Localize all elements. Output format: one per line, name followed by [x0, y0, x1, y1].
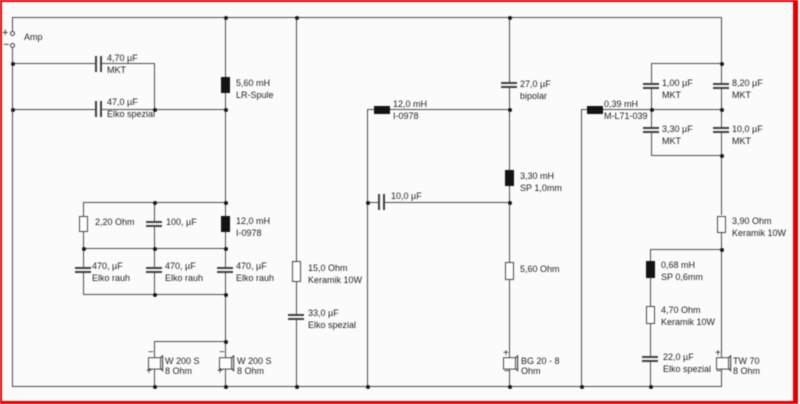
wire V6 seg2: [651, 89, 652, 127]
capacitor 10,0uF: [378, 194, 380, 210]
wire RLC mid rail: [83, 248, 226, 249]
capacitor 4,70uF MKT: [95, 56, 97, 72]
label BG 20 - 8 Ohm: [521, 356, 560, 376]
wire RLC bottom rail: [83, 294, 226, 295]
wire left drop to + terminal: [12, 17, 13, 32]
junction bottom rail at V4: [508, 385, 512, 389]
label spk1 plus: [146, 366, 152, 378]
capacitor 33,0uF Elko spezial: [288, 314, 304, 316]
speaker TW 70: [716, 355, 736, 373]
capacitor 8,20uF MKT: [713, 83, 729, 85]
label TW70 plus: [715, 348, 721, 360]
junction 10uF wire at V4: [508, 201, 512, 205]
wire top rail: [12, 17, 722, 18]
junction RLC bottom at V2: [224, 293, 228, 297]
wire tweeter branch horizontal: [650, 249, 722, 250]
label 3,30 mH SP 1,0mm: [520, 170, 562, 194]
wire H2 left of C1: [12, 63, 95, 64]
label 12,0 mH I-0978 horizontal: [393, 98, 427, 122]
resistor 4,70 Ohm Keramik 10W: [646, 306, 655, 324]
capacitor 22,0uF Elko spezial: [642, 356, 658, 358]
label 5,60 Ohm: [520, 263, 560, 275]
junction H3 at left rail: [11, 108, 15, 112]
wire speaker link rail: [154, 341, 226, 342]
resistor 2,20 Ohm: [79, 216, 88, 232]
junction speaker link at V2: [224, 340, 228, 344]
inductor 0,68mH SP 0,6mm: [646, 261, 655, 278]
label 470 uF Elko rauh 1: [92, 260, 130, 284]
capacitor 470uF Elko rauh 1: [75, 267, 91, 269]
wire MKT top rail: [651, 63, 722, 64]
wire V3 top: [296, 17, 297, 261]
wire 0,39mH horizontal: [581, 109, 722, 110]
junction bottom rail at V5: [580, 385, 584, 389]
label 3,30 uF MKT: [662, 123, 693, 147]
resistor 15,0 Ohm Keramik 10W: [292, 261, 301, 282]
label 1,00 uF MKT: [662, 77, 693, 101]
speaker W 200 S no.2: [219, 355, 239, 373]
junction RLC top at V2: [224, 201, 228, 205]
label BG20 minus: [504, 366, 510, 378]
label 5,60 mH LR-Spule: [236, 77, 274, 101]
label 15,0 Ohm Keramik 10W: [308, 262, 362, 286]
wire x154 bottom stub: [154, 273, 155, 295]
wire spk1 bottom stub: [154, 369, 155, 387]
speaker W 200 S no.1: [148, 355, 168, 373]
inductor 12,0mH I-0978 vertical: [221, 216, 230, 232]
wire H3 left of C2: [12, 109, 95, 110]
junction bottom rail at V6b: [649, 385, 653, 389]
wire V7 seg1: [721, 17, 722, 83]
wire V7 seg3: [721, 133, 722, 215]
label 0,39 mH M-L71-039: [604, 98, 648, 122]
label TW 70 8 Ohm: [733, 356, 760, 376]
label 4,70 Ohm Keramik 10W: [661, 304, 715, 328]
wire 12mH branch horizontal: [367, 109, 509, 110]
label 0,68 mH SP 0,6mm: [661, 259, 703, 283]
wire V2 below inductor: [225, 232, 226, 267]
wire V4 seg2: [509, 88, 510, 170]
wire spk1 top stub: [154, 341, 155, 358]
junction bottom rail at x154: [153, 385, 157, 389]
inductor 12,0mH I-0978 horizontal: [374, 106, 390, 114]
node Amp - terminal: [10, 43, 15, 48]
label Amp +: [2, 27, 8, 39]
label 33,0 uF Elko spezial: [308, 307, 356, 331]
junction bottom rail at V2: [224, 385, 228, 389]
junction 10uF wire at x367: [366, 201, 370, 205]
wire RLC top rail: [83, 202, 226, 203]
label 470 uF Elko rauh 2: [165, 260, 203, 284]
label 8,20 uF MKT: [732, 77, 763, 101]
label 22,0 uF Elko spezial: [663, 351, 711, 375]
capacitor 47,0uF Elko spezial: [95, 101, 97, 117]
junction tweeter branch at V7: [720, 248, 724, 252]
speaker BG 20: [503, 355, 523, 373]
junction RLC mid at x83: [82, 247, 86, 251]
junction 0,39mH wire at V7: [720, 108, 724, 112]
inductor 0,39mH M-L71-039: [587, 106, 603, 114]
label 100, uF: [166, 216, 197, 228]
wire V6b seg2: [650, 278, 651, 306]
label 4,70 uF MKT: [107, 52, 138, 76]
junction bottom rail at x367: [366, 385, 370, 389]
wire 10uF wire left: [367, 202, 378, 203]
label spk1 minus: [148, 347, 154, 359]
wire V3 mid: [296, 282, 297, 314]
label 27,0 uF bipolar: [520, 78, 551, 102]
wire H2 right of C1: [102, 63, 154, 64]
junction RLC mid at x154: [153, 247, 157, 251]
wire V6 seg1: [651, 63, 652, 83]
wire 10uF wire right: [385, 202, 509, 203]
wire V7 seg2: [721, 89, 722, 127]
wire V3 bottom: [296, 320, 297, 387]
junction bottom rail at V3: [295, 385, 299, 389]
junction H3 at x154: [153, 108, 157, 112]
label 47,0 uF Elko spezial: [107, 96, 155, 120]
junction top rail at V2: [224, 16, 228, 20]
label 12,0 mH I-0978 vertical: [236, 215, 270, 239]
wire V7 seg4: [721, 233, 722, 358]
wire x83 mid stub: [83, 232, 84, 267]
inductor 3,30mH SP 1,0mm: [505, 170, 514, 186]
wire V2 top: [225, 17, 226, 77]
inductor 5,60mH LR-Spule: [221, 77, 230, 93]
wire x367 rail: [367, 109, 368, 387]
wire x83 top stub: [83, 202, 84, 216]
label W 200 S 8 Ohm no.2: [237, 356, 272, 376]
capacitor 100uF: [146, 221, 162, 223]
junction RLC mid at V2: [224, 247, 228, 251]
label 3,90 Ohm Keramik 10W: [732, 215, 786, 239]
label TW70 minus: [716, 366, 722, 378]
junction RLC top at x154: [153, 201, 157, 205]
junction MKT bottom at V7: [720, 154, 724, 158]
junction MKT top at V7: [720, 62, 724, 66]
label 2,20 Ohm: [95, 216, 135, 228]
label 470 uF Elko rauh 3: [236, 260, 274, 284]
label Amp: [24, 31, 43, 43]
wire V2 mid: [225, 93, 226, 216]
junction top rail at V3: [295, 16, 299, 20]
capacitor 3,30uF MKT: [643, 127, 659, 129]
junction top rail at V4: [508, 16, 512, 20]
wire V6 seg3: [651, 133, 652, 156]
junction RLC bottom at x154: [153, 293, 157, 297]
wire TW70 bottom stub: [721, 369, 722, 387]
wire left rail from - terminal: [12, 48, 13, 387]
wire V6b seg1: [650, 249, 651, 261]
wire x154 top stub: [154, 202, 155, 221]
label W 200 S 8 Ohm no.1: [165, 356, 200, 376]
wire V4 seg4: [509, 280, 510, 358]
resistor 3,90 Ohm Keramik 10W: [717, 216, 726, 233]
label spk2 minus: [219, 347, 225, 359]
label 10,0 uF MKT: [732, 123, 763, 147]
wire V2 below cap3: [225, 273, 226, 358]
label BG20 plus: [503, 348, 509, 360]
capacitor 470uF Elko rauh 3: [217, 267, 233, 269]
junction H2 at left rail: [11, 62, 15, 66]
label spk2 plus: [217, 366, 223, 378]
wire V4 seg3: [509, 186, 510, 262]
wire bottom rail: [12, 386, 722, 387]
capacitor 1,00uF MKT: [643, 83, 659, 85]
capacitor 27,0uF bipolar: [501, 82, 517, 84]
wire BG20 bottom stub: [509, 369, 510, 387]
wire V2 below speaker2: [225, 369, 226, 387]
junction 0,39mH wire at V6: [650, 108, 654, 112]
capacitor 470uF Elko rauh 2: [146, 267, 162, 269]
resistor 5,60 Ohm: [505, 262, 514, 280]
wire V6b seg4: [650, 362, 651, 387]
junction H3 at V2: [224, 108, 228, 112]
label Amp -: [3, 39, 9, 51]
wire H3 right of C2: [102, 109, 226, 110]
junction 12mH wire at V4: [508, 108, 512, 112]
wire x83 bottom stub: [83, 273, 84, 295]
wire V5 rail: [581, 109, 582, 387]
capacitor 10,0uF MKT: [713, 127, 729, 129]
wire MKT bottom rail: [651, 155, 722, 156]
wire C1 branch drop: [154, 63, 155, 110]
wire x154 mid stub: [154, 227, 155, 267]
wire V6b seg3: [650, 324, 651, 356]
label 10,0 uF: [391, 190, 422, 202]
wire V4 top: [509, 17, 510, 82]
node Amp + terminal: [10, 31, 15, 36]
